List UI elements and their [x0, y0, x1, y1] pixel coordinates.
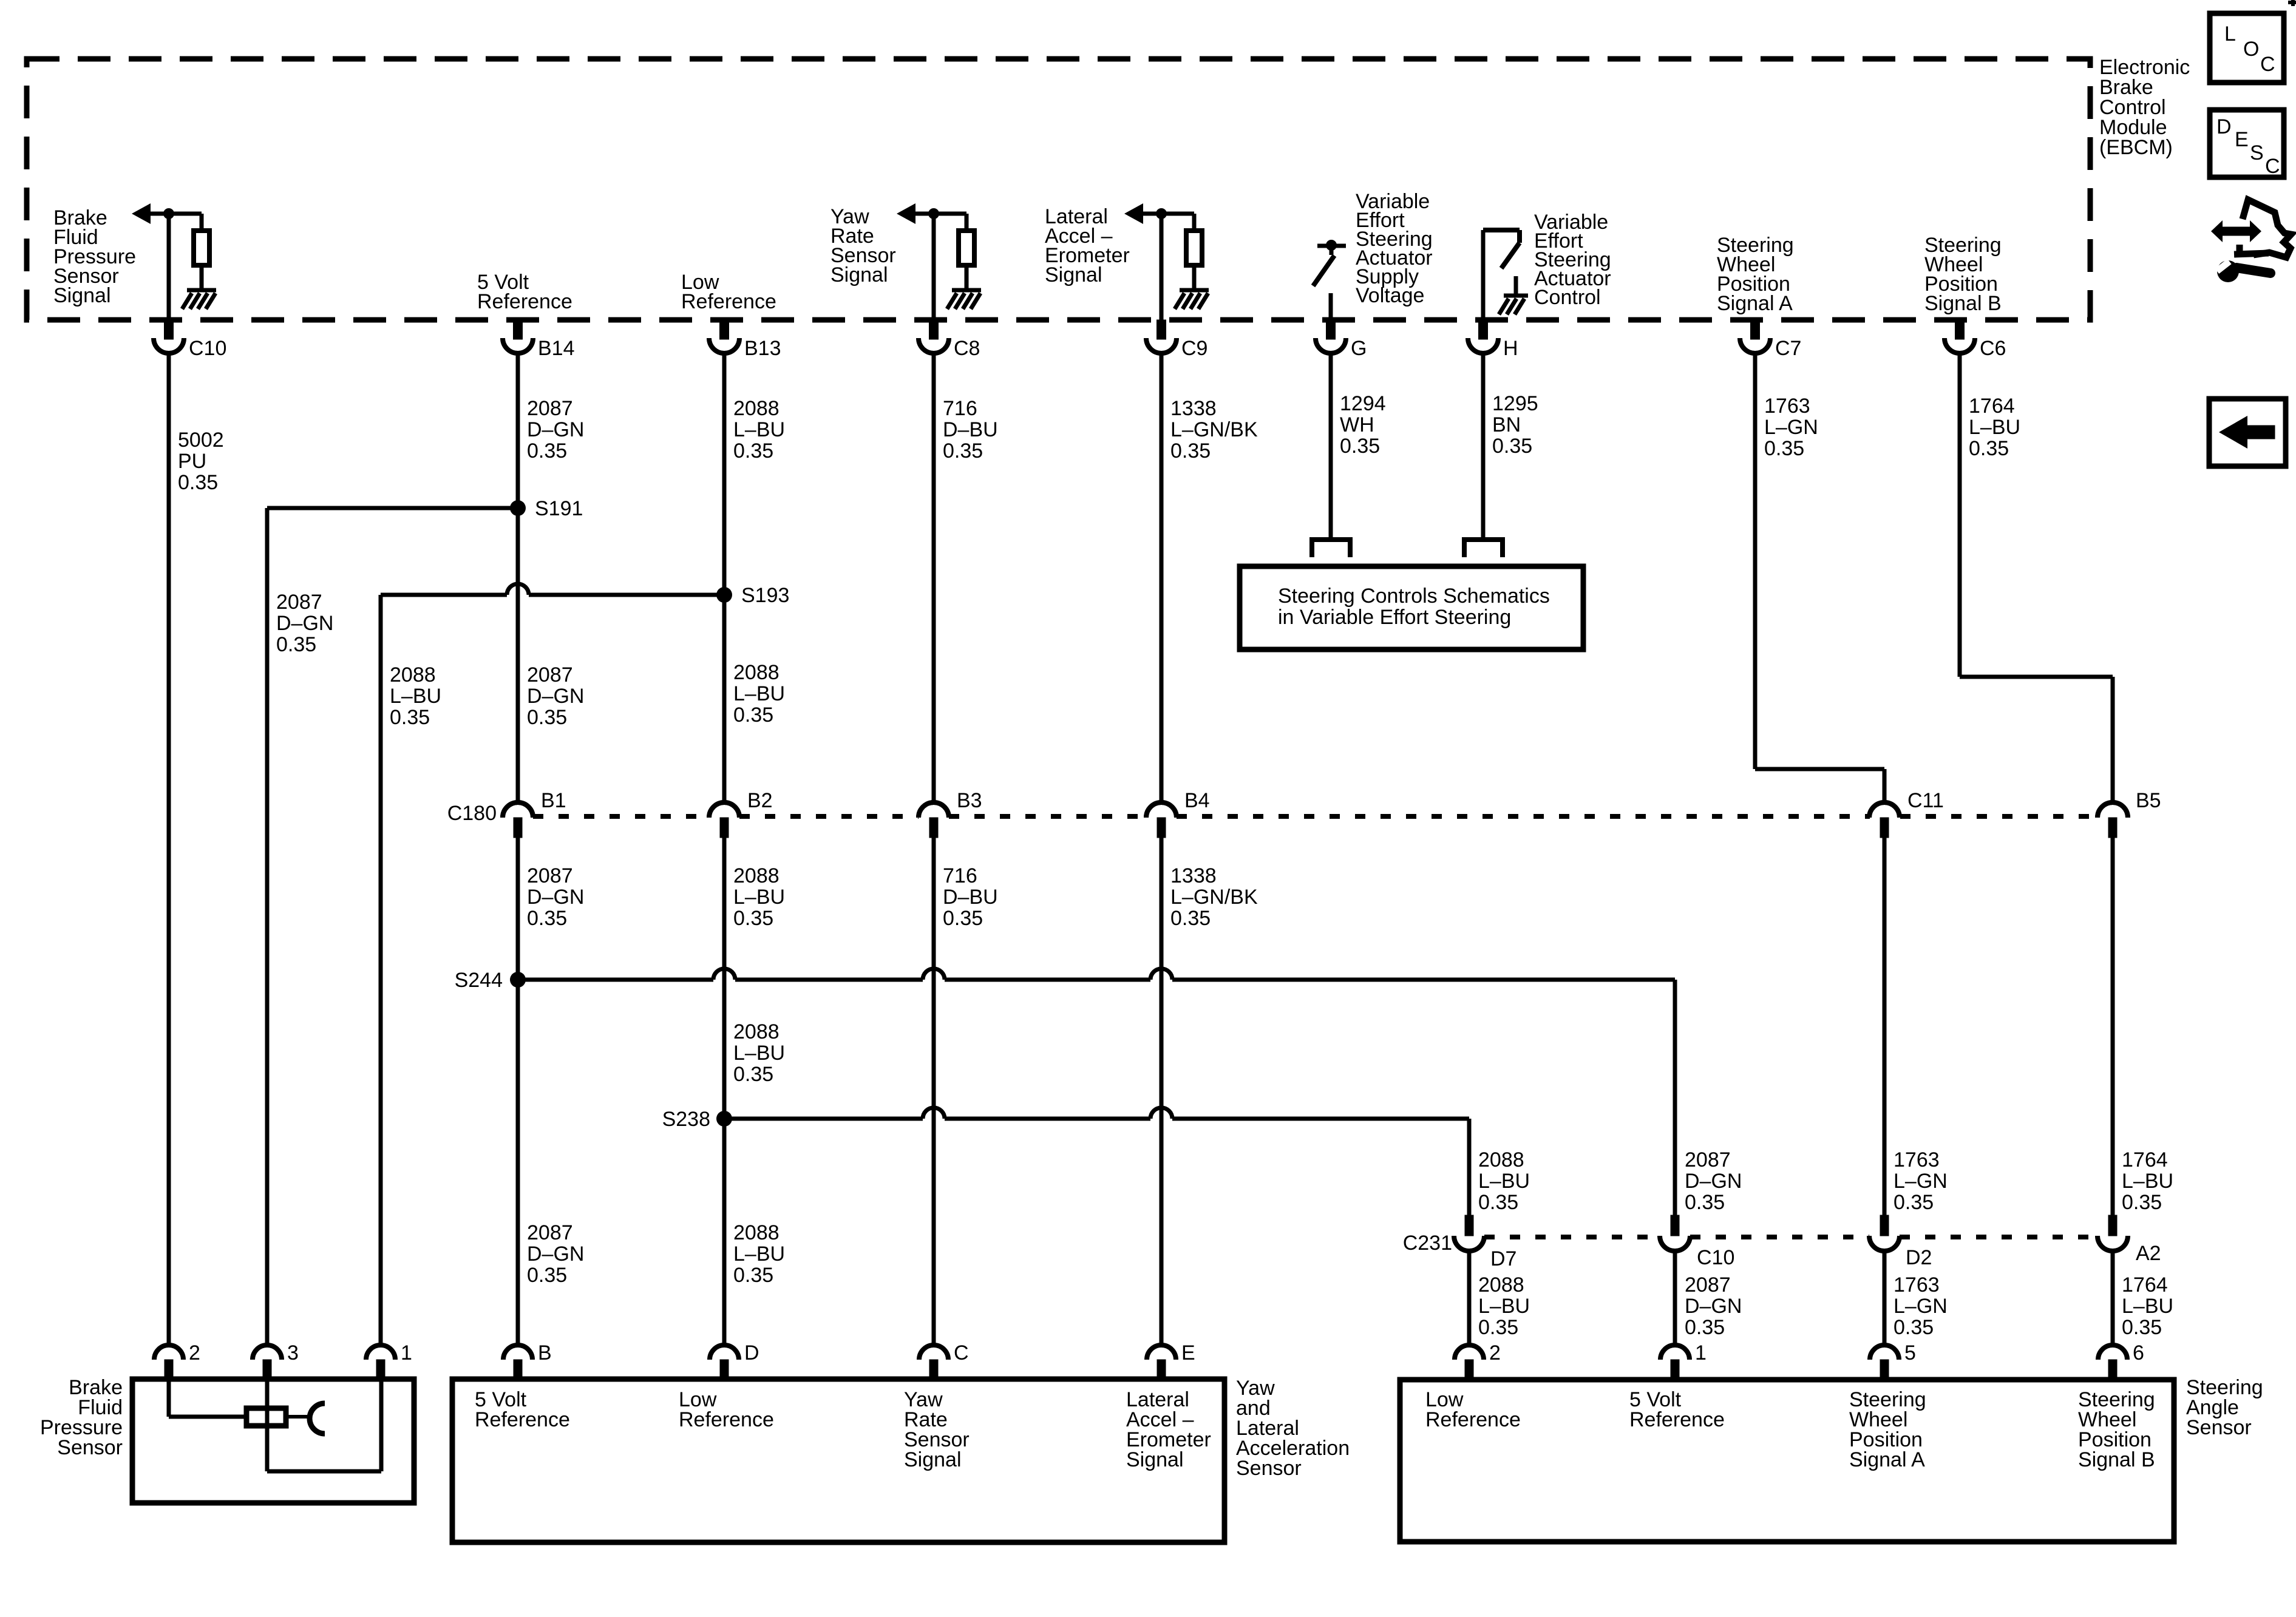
svg-text:L–GN: L–GN	[1764, 416, 1818, 439]
svg-text:L–GN/BK: L–GN/BK	[1170, 886, 1258, 909]
svg-text:2088: 2088	[733, 1020, 779, 1043]
svg-text:Signal: Signal	[1045, 263, 1102, 286]
svg-text:Signal A: Signal A	[1849, 1448, 1925, 1471]
svg-text:B13: B13	[744, 337, 781, 360]
svg-text:B2: B2	[747, 789, 773, 812]
svg-text:0.35: 0.35	[1685, 1191, 1725, 1214]
svg-text:D–GN: D–GN	[527, 886, 584, 909]
svg-text:in Variable Effort Steering: in Variable Effort Steering	[1278, 606, 1511, 629]
svg-text:0.35: 0.35	[527, 907, 567, 930]
svg-text:(EBCM): (EBCM)	[2099, 136, 2173, 159]
svg-text:Sensor: Sensor	[2186, 1416, 2252, 1439]
svg-text:0.35: 0.35	[1894, 1316, 1934, 1339]
svg-text:1763: 1763	[1764, 395, 1810, 418]
svg-text:1338: 1338	[1170, 864, 1217, 887]
svg-text:0.35: 0.35	[733, 1063, 773, 1086]
svg-text:C: C	[954, 1341, 969, 1364]
svg-text:C11: C11	[1907, 789, 1944, 812]
svg-text:D: D	[2216, 115, 2232, 138]
svg-text:Sensor: Sensor	[57, 1436, 123, 1459]
svg-text:1338: 1338	[1170, 397, 1217, 420]
svg-text:0.35: 0.35	[527, 439, 567, 463]
svg-text:D–GN: D–GN	[527, 685, 584, 708]
svg-text:0.35: 0.35	[733, 703, 773, 727]
svg-text:S: S	[2250, 141, 2264, 164]
svg-text:S244: S244	[455, 969, 503, 992]
svg-text:2088: 2088	[1478, 1148, 1524, 1171]
svg-text:Signal B: Signal B	[1924, 292, 2002, 315]
svg-text:0.35: 0.35	[733, 907, 773, 930]
svg-text:Signal A: Signal A	[1717, 292, 1793, 315]
svg-text:Reference: Reference	[679, 1408, 774, 1431]
svg-text:D–GN: D–GN	[276, 612, 333, 635]
svg-text:L–BU: L–BU	[733, 1042, 785, 1065]
svg-text:1763: 1763	[1894, 1148, 1940, 1171]
svg-text:0.35: 0.35	[943, 439, 983, 463]
svg-text:B5: B5	[2136, 789, 2161, 812]
svg-text:Sensor: Sensor	[1236, 1457, 1302, 1480]
svg-text:Signal: Signal	[830, 263, 888, 286]
svg-text:WH: WH	[1340, 413, 1374, 436]
svg-text:D7: D7	[1490, 1247, 1517, 1270]
svg-text:2087: 2087	[1685, 1148, 1731, 1171]
svg-text:B1: B1	[541, 789, 566, 812]
svg-text:0.35: 0.35	[1969, 437, 2009, 460]
svg-text:2088: 2088	[733, 397, 779, 420]
svg-text:D2: D2	[1906, 1246, 1932, 1269]
svg-text:L–BU: L–BU	[2122, 1295, 2173, 1318]
svg-text:716: 716	[943, 397, 977, 420]
svg-text:0.35: 0.35	[1764, 437, 1804, 460]
svg-text:L–GN/BK: L–GN/BK	[1170, 418, 1258, 441]
svg-text:0.35: 0.35	[733, 1264, 773, 1287]
svg-text:0.35: 0.35	[178, 471, 218, 494]
svg-text:H: H	[1503, 337, 1518, 360]
svg-text:5: 5	[1904, 1341, 1916, 1364]
svg-text:C: C	[2265, 155, 2280, 178]
svg-text:0.35: 0.35	[2122, 1316, 2162, 1339]
svg-text:PU: PU	[178, 450, 206, 473]
svg-text:0.35: 0.35	[1685, 1316, 1725, 1339]
svg-text:L: L	[2224, 22, 2236, 46]
svg-text:0.35: 0.35	[1170, 439, 1211, 463]
svg-text:2088: 2088	[390, 663, 436, 686]
svg-text:2087: 2087	[527, 1221, 573, 1244]
svg-text:0.35: 0.35	[1478, 1191, 1518, 1214]
svg-text:D–GN: D–GN	[1685, 1170, 1742, 1193]
svg-text:1764: 1764	[2122, 1148, 2168, 1171]
svg-text:L–BU: L–BU	[733, 418, 785, 441]
svg-text:0.35: 0.35	[1894, 1191, 1934, 1214]
svg-text:L–BU: L–BU	[2122, 1170, 2173, 1193]
svg-text:2087: 2087	[527, 397, 573, 420]
svg-text:0.35: 0.35	[527, 706, 567, 729]
svg-text:Signal B: Signal B	[2078, 1448, 2155, 1471]
svg-text:2088: 2088	[733, 661, 779, 684]
svg-text:C180: C180	[447, 802, 497, 825]
svg-text:L–BU: L–BU	[1969, 416, 2020, 439]
svg-text:2088: 2088	[1478, 1273, 1524, 1297]
svg-text:1294: 1294	[1340, 392, 1386, 415]
svg-text:716: 716	[943, 864, 977, 887]
svg-text:0.35: 0.35	[1170, 907, 1211, 930]
svg-text:1295: 1295	[1492, 392, 1538, 415]
svg-text:L–BU: L–BU	[733, 1242, 785, 1266]
svg-text:1764: 1764	[1969, 395, 2015, 418]
svg-text:Reference: Reference	[1425, 1408, 1521, 1431]
svg-text:C10: C10	[189, 337, 226, 360]
svg-text:S191: S191	[535, 497, 583, 520]
svg-text:0.35: 0.35	[943, 907, 983, 930]
svg-text:C8: C8	[954, 337, 980, 360]
svg-text:5002: 5002	[178, 429, 224, 452]
svg-text:Control: Control	[1534, 286, 1601, 309]
svg-text:L–BU: L–BU	[733, 886, 785, 909]
svg-text:0.35: 0.35	[527, 1264, 567, 1287]
svg-text:1: 1	[401, 1341, 412, 1364]
svg-text:Signal: Signal	[1126, 1448, 1184, 1471]
svg-text:Reference: Reference	[681, 290, 776, 313]
svg-text:L–BU: L–BU	[1478, 1295, 1530, 1318]
svg-text:D–GN: D–GN	[1685, 1295, 1742, 1318]
svg-text:0.35: 0.35	[390, 706, 430, 729]
svg-text:D–GN: D–GN	[527, 418, 584, 441]
svg-text:L–BU: L–BU	[1478, 1170, 1530, 1193]
svg-text:3: 3	[287, 1341, 299, 1364]
svg-text:1764: 1764	[2122, 1273, 2168, 1297]
svg-text:D–BU: D–BU	[943, 418, 998, 441]
svg-text:0.35: 0.35	[1340, 435, 1380, 458]
svg-text:0.35: 0.35	[733, 439, 773, 463]
svg-text:S193: S193	[741, 584, 789, 607]
svg-text:Reference: Reference	[475, 1408, 570, 1431]
svg-text:2: 2	[1489, 1341, 1501, 1364]
svg-text:Reference: Reference	[477, 290, 572, 313]
svg-text:Steering Controls Schematics: Steering Controls Schematics	[1278, 585, 1550, 608]
svg-text:B4: B4	[1184, 789, 1210, 812]
svg-text:C6: C6	[1980, 337, 2006, 360]
svg-text:Voltage: Voltage	[1356, 284, 1424, 307]
svg-text:1: 1	[1695, 1341, 1707, 1364]
svg-text:B: B	[538, 1341, 552, 1364]
svg-text:Signal: Signal	[904, 1448, 962, 1471]
svg-text:G: G	[1351, 337, 1367, 360]
svg-text:L–GN: L–GN	[1894, 1295, 1948, 1318]
svg-text:6: 6	[2133, 1341, 2144, 1364]
svg-text:0.35: 0.35	[1478, 1316, 1518, 1339]
svg-text:C9: C9	[1181, 337, 1207, 360]
svg-text:L–GN: L–GN	[1894, 1170, 1948, 1193]
svg-text:E: E	[2235, 128, 2249, 151]
svg-text:C: C	[2260, 53, 2275, 76]
svg-text:0.35: 0.35	[276, 633, 316, 656]
svg-text:Reference: Reference	[1629, 1408, 1725, 1431]
svg-text:D–BU: D–BU	[943, 886, 998, 909]
svg-text:B14: B14	[538, 337, 575, 360]
svg-text:E: E	[1181, 1341, 1195, 1364]
svg-text:2087: 2087	[276, 591, 322, 614]
svg-text:0.35: 0.35	[1492, 435, 1532, 458]
svg-text:2: 2	[189, 1341, 200, 1364]
svg-text:L–BU: L–BU	[733, 682, 785, 705]
svg-text:S238: S238	[662, 1108, 710, 1131]
svg-text:C10: C10	[1697, 1246, 1734, 1269]
svg-text:L–BU: L–BU	[390, 685, 441, 708]
svg-text:2087: 2087	[527, 864, 573, 887]
svg-text:BN: BN	[1492, 413, 1521, 436]
svg-text:1763: 1763	[1894, 1273, 1940, 1297]
svg-text:A2: A2	[2136, 1242, 2161, 1265]
svg-text:Signal: Signal	[53, 284, 111, 307]
svg-text:C231: C231	[1403, 1232, 1452, 1255]
svg-text:0.35: 0.35	[2122, 1191, 2162, 1214]
svg-text:2088: 2088	[733, 864, 779, 887]
svg-text:2087: 2087	[527, 663, 573, 686]
svg-text:D: D	[744, 1341, 759, 1364]
svg-text:O: O	[2243, 38, 2259, 61]
svg-text:C7: C7	[1775, 337, 1801, 360]
svg-text:B3: B3	[957, 789, 982, 812]
svg-text:2088: 2088	[733, 1221, 779, 1244]
svg-text:2087: 2087	[1685, 1273, 1731, 1297]
svg-text:D–GN: D–GN	[527, 1242, 584, 1266]
